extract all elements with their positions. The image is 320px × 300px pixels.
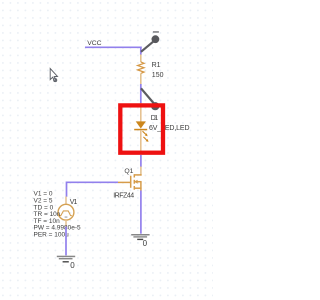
mouse cursor [50, 69, 57, 82]
ground 0 below V1 [57, 256, 75, 271]
wire VCC vertical to R1 [140, 47, 142, 56]
svg-text:IRFZ44: IRFZ44 [113, 193, 134, 200]
value block V1 parameters [34, 191, 82, 239]
voltage marker probe at R1-D1 node [141, 88, 159, 110]
wire VCC horizontal [85, 46, 142, 48]
transistor Q1 [118, 167, 142, 191]
svg-text:0: 0 [143, 239, 148, 248]
voltage marker probe at VCC node [141, 31, 159, 52]
wire Q1 source to ground [140, 191, 142, 234]
svg-text:D1: D1 [151, 115, 158, 122]
svg-text:V1: V1 [70, 199, 78, 206]
wire V1 to ground [65, 227, 67, 256]
svg-text:Q1: Q1 [124, 168, 133, 175]
svg-text:PER = 100u: PER = 100u [34, 232, 70, 239]
wire V1 to Q1 gate [67, 182, 119, 197]
resistor R1 [138, 55, 144, 85]
svg-text:VCC: VCC [87, 40, 101, 47]
wire R1 to D1 [140, 84, 142, 104]
svg-text:0: 0 [70, 261, 75, 270]
wire D1 to Q1 drain [140, 155, 142, 167]
svg-text:150: 150 [152, 72, 164, 79]
source V1 pulse [58, 197, 74, 228]
svg-text:6V_LED,LED: 6V_LED,LED [149, 125, 190, 132]
red highlight box around D1 [120, 105, 163, 152]
svg-text:R1: R1 [152, 62, 161, 69]
ground 0 below Q1 [131, 234, 149, 248]
LED D1 [134, 103, 148, 152]
